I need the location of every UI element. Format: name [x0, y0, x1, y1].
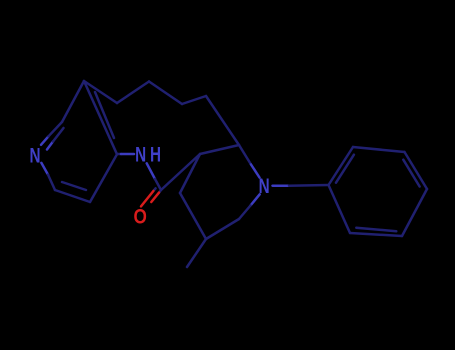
pyridine N1=C2 double bond outer line bright half [41, 136, 49, 145]
piperidine C4-C3 bond [200, 145, 239, 154]
phenethyl chain to benzene dark half [289, 184, 329, 187]
piperidine N to phenethyl chain bright half [273, 184, 290, 187]
piperidine C3-N bond bright half [251, 165, 260, 178]
pyridine C3=C4 inner aromatic line [95, 92, 114, 138]
benzene inner aromatic line ipso-TL [336, 155, 354, 183]
pyridine N1=C2 double bond inner line dark half [53, 128, 64, 142]
benzene edge TR-R [405, 152, 428, 189]
benzene inner aromatic line TR-R [403, 160, 419, 187]
C=O double bond main line red half [151, 193, 159, 202]
svg-text:N: N [29, 143, 40, 167]
bridge chain CH2-d to piperidine C2 [206, 96, 239, 145]
bond amide N-H to carbonyl C bright half [147, 163, 155, 179]
bridge chain CH2-a to CH2-b [117, 82, 149, 104]
pyridine N1=C2 double bond outer line dark half [49, 122, 63, 136]
bond carbonyl C to piperidine C4 [161, 154, 200, 190]
svg-text:N: N [135, 142, 146, 166]
bridge chain CH2-b to CH2-c [149, 82, 182, 105]
C=O double bond main line dark half [159, 190, 161, 193]
svg-text:H: H [150, 142, 161, 166]
pyridine C2-C3 bond [62, 81, 84, 122]
svg-text:N: N [259, 173, 270, 197]
piperidine N-C6 bond dark half [239, 206, 251, 220]
benzene edge R-BR [402, 189, 427, 236]
pyridine C3-C4 bond [84, 81, 117, 154]
piperidine C5-C4a bond [180, 193, 206, 239]
bond pyridine C4 to amide N dark half [117, 153, 121, 156]
pyridine C6-C5 bond [55, 190, 90, 202]
pyridine N1-C6 bond dark half [48, 175, 55, 190]
pyridine N1-C6 bond bright half [41, 163, 48, 175]
piperidine C5 stray stub [187, 239, 206, 267]
benzene edge BR-BL [350, 233, 402, 236]
benzene edge BL-ipso [329, 185, 351, 233]
bond amide N to carbonyl C dark half [155, 179, 161, 190]
pyridine C5=C6 inner aromatic line [62, 182, 86, 190]
bond pyridine C4 to amide N bright half [121, 153, 134, 156]
bridge chain CH2-c to CH2-d [182, 96, 206, 104]
benzene edge TL-TR [353, 147, 405, 152]
piperidine C6-C5 bond [206, 219, 239, 239]
pyridine C5-C4 bond [90, 154, 117, 202]
svg-text:O: O [134, 205, 147, 229]
benzene edge ipso-TL [329, 147, 354, 185]
bridge chain C3 to CH2-a [84, 81, 117, 103]
piperidine C3-N bond dark half [239, 145, 251, 165]
piperidine N-C6 bond bright half [251, 194, 260, 205]
C=O double bond inner line red half [141, 191, 153, 206]
pyridine N1=C2 double bond inner line bright half [47, 142, 53, 150]
C=O double bond inner line dark half [153, 188, 155, 191]
piperidine C4a-C4 bond [180, 154, 200, 193]
benzene inner aromatic line BR-BL [356, 228, 396, 232]
